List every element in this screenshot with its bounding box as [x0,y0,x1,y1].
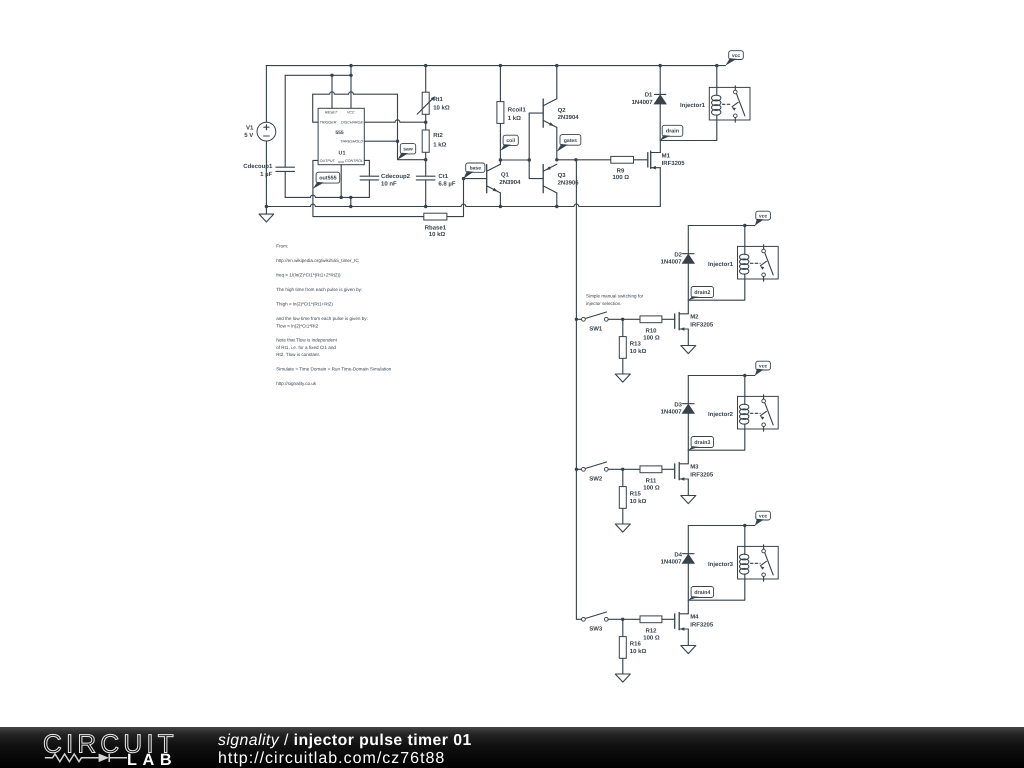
svg-text:10 kΩ: 10 kΩ [630,498,647,505]
ground [681,495,696,503]
capacitor Cdecoup2 on CONTROL pin [360,160,411,197]
wire ground rail [265,204,661,208]
resistor R12 100 [623,616,675,642]
svg-text:of Rt1, i.e. for a fixed Ct1 a: of Rt1, i.e. for a fixed Ct1 and [276,345,336,350]
wire switch column [575,160,578,620]
diode D3 1N4007 [661,376,695,451]
svg-text:100 Ω: 100 Ω [643,335,660,342]
svg-text:gates: gates [564,138,577,144]
svg-text:1 µF: 1 µF [260,171,272,178]
transistor Q1 2N3904 [464,160,522,207]
svg-text:1N4007: 1N4007 [661,259,683,266]
svg-text:http://signality.co.uk: http://signality.co.uk [276,381,317,386]
ground [681,345,696,353]
svg-text:OUTPUT: OUTPUT [320,159,336,163]
svg-text:coil: coil [506,138,515,144]
svg-text:M2: M2 [690,314,699,321]
svg-text:M3: M3 [690,464,699,471]
transistor M3 IRF3205 [675,450,714,495]
svg-text:5 V: 5 V [244,132,253,139]
svg-text:100 Ω: 100 Ω [643,485,660,492]
svg-text:drain2: drain2 [694,290,710,296]
resistor R16 10k [619,619,646,674]
wire GND pin [340,165,342,198]
svg-text:drain: drain [666,129,679,135]
svg-text:LAB: LAB [127,751,177,768]
transistor M2 IRF3205 [675,300,714,345]
wire coil node [499,123,531,161]
wire drain node [688,279,745,300]
svg-text:6.8 µF: 6.8 µF [438,180,455,187]
svg-text:1N4007: 1N4007 [661,409,683,416]
svg-text:10 kΩ: 10 kΩ [630,348,647,355]
svg-text:1N4007: 1N4007 [661,559,683,566]
svg-text:10 kΩ: 10 kΩ [630,648,647,655]
svg-text:From:: From: [276,244,288,249]
svg-text:V1: V1 [246,124,254,131]
wire inner ground rail [285,195,369,199]
IC U1 555 timer [318,108,364,164]
svg-text:TRIGGER: TRIGGER [320,121,337,125]
ground [615,374,630,382]
svg-text:SW3: SW3 [589,626,603,633]
resistor R13 10k [619,319,646,374]
resistor R10 100 [623,316,675,342]
annotation text [586,293,644,305]
svg-text:IRF3205: IRF3205 [690,622,714,629]
CircuitLab logo [0,727,200,768]
ground [615,674,630,682]
svg-text:555: 555 [335,130,344,136]
wire Rbase1 to base node [447,177,465,217]
svg-text:vcc: vcc [759,364,768,370]
wire [265,141,267,207]
capacitor Ct1 [416,160,455,207]
svg-text:D4: D4 [674,551,682,558]
wire drain node [688,429,745,450]
wire base rail Q2 Q3 [529,113,543,179]
svg-text:SW2: SW2 [589,476,603,483]
annotation notes text [276,244,392,386]
svg-text:VCC: VCC [347,110,355,114]
svg-text:IRF3205: IRF3205 [662,160,686,167]
svg-text:SW1: SW1 [589,326,603,333]
svg-text:Injector1: Injector1 [680,102,706,109]
diode D4 1N4007 [661,526,695,601]
transistor Q3 2N3906 [543,164,579,206]
ground [259,207,274,223]
svg-text:Tlow = ln(2)*Ct1*Rt2: Tlow = ln(2)*Ct1*Rt2 [276,323,318,328]
svg-text:1 kΩ: 1 kΩ [433,141,446,148]
svg-text:injector selection.: injector selection. [586,301,622,306]
svg-text:2N3904: 2N3904 [499,179,521,186]
svg-text:GND: GND [338,160,344,164]
svg-text:DISCHARGE: DISCHARGE [341,121,363,125]
svg-text:Injector1: Injector1 [708,261,734,268]
resistor Rbase1 [424,213,447,238]
svg-text:Q1: Q1 [501,171,510,178]
net flag base [464,163,485,179]
svg-text:Q2: Q2 [558,107,567,114]
svg-text:100 Ω: 100 Ω [613,174,630,181]
svg-text:vcc: vcc [732,53,741,59]
svg-text:M1: M1 [662,152,671,159]
svg-text:http://en.wikipedia.org/wiki/5: http://en.wikipedia.org/wiki/555_timer_I… [276,258,359,263]
wire TRIGGER to THRESHOLD net [313,92,428,162]
svg-text:saw: saw [403,147,413,153]
wire [350,197,352,206]
svg-text:R16: R16 [630,641,642,648]
relay Injector3 [708,526,778,582]
wire [265,66,267,123]
svg-text:Rt1: Rt1 [433,96,443,103]
net flag coil [500,135,518,151]
ground [615,524,630,532]
svg-text:Q3: Q3 [558,172,567,179]
svg-text:1N4007: 1N4007 [632,99,654,106]
svg-text:Rt2: Rt2 [433,132,443,139]
switch SW2 [576,462,624,483]
svg-text:IRF3205: IRF3205 [690,472,714,479]
relay Injector1 [708,226,778,282]
svg-text:Cdecoup1: Cdecoup1 [243,163,273,170]
wire DISCHARGE pin [364,120,427,124]
resistor R15 10k [619,469,646,524]
capacitor Cdecoup1 [243,75,294,197]
wire RESET pin [331,75,333,108]
svg-text:Note that Tlow is independent: Note that Tlow is independent [276,338,337,343]
svg-text:R12: R12 [645,628,657,635]
svg-text:10 nF: 10 nF [381,180,397,187]
svg-text:D1: D1 [645,92,653,99]
net flag vcc [755,211,770,225]
transistor M1 IRF3205 [648,141,685,207]
svg-text:and the low time from each pul: and the low time from each pulse is give… [276,316,368,321]
svg-text:R15: R15 [630,491,642,498]
wire vcc rail of Injector2 block [688,374,755,377]
diode D2 1N4007 [661,226,695,301]
switch SW3 [576,612,624,633]
svg-text:M4: M4 [690,614,699,621]
relay Injector1 [680,66,750,123]
svg-text:R11: R11 [646,478,657,485]
wire v+ sub rail [285,74,352,77]
svg-text:Rcoil1: Rcoil1 [508,107,527,114]
wire VCC pin [350,66,352,109]
voltage source V1 [244,122,276,141]
net flag drain4 [688,587,713,601]
net flag gates [557,135,581,152]
wire drain node [660,120,717,141]
resistor Rt1 potentiometer [417,66,450,123]
net flag drain [660,125,683,140]
svg-text:10 kΩ: 10 kΩ [433,104,450,111]
wire THRESHOLD pin [364,140,397,142]
wire vcc rail of Injector3 block [688,524,755,527]
svg-text:vcc: vcc [759,514,768,520]
svg-text:Injector2: Injector2 [708,411,734,418]
svg-text:THRESHOLD: THRESHOLD [340,140,363,144]
svg-text:Thigh = ln(2)*Ct1*(Rt1+Rt2): Thigh = ln(2)*Ct1*(Rt1+Rt2) [276,302,333,307]
svg-text:The high time from each pulse: The high time from each pulse is given b… [276,287,362,292]
net flag vcc [755,511,770,525]
wire gates rail [555,158,611,161]
svg-text:drain4: drain4 [694,590,710,596]
svg-text:R9: R9 [617,168,625,175]
svg-text:2N3904: 2N3904 [558,114,580,121]
svg-text:base: base [470,166,482,172]
svg-text:Cdecoup2: Cdecoup2 [381,173,411,180]
net flag drain2 [688,287,713,301]
resistor Rcoil1 [497,66,527,124]
wire OUTPUT to Rbase1 [313,160,424,216]
transistor Q2 2N3904 [543,66,579,160]
net flag saw [398,144,416,160]
net flag out555 [313,172,340,189]
svg-text:Injector3: Injector3 [708,561,734,568]
svg-text:D2: D2 [674,251,682,258]
svg-text:1 kΩ: 1 kΩ [508,115,521,122]
svg-text:Rbase1: Rbase1 [425,225,447,232]
relay Injector2 [708,376,778,432]
svg-text:100 Ω: 100 Ω [643,635,660,642]
wire vcc top rail [266,64,725,67]
svg-text:U1: U1 [339,150,346,156]
svg-text:R10: R10 [645,328,657,335]
svg-text:CONTROL: CONTROL [345,159,363,163]
svg-text:out555: out555 [319,176,336,182]
net flag vcc [755,361,770,375]
switch SW1 [576,312,624,333]
svg-text:RESET: RESET [325,110,338,114]
ground [681,645,696,653]
wire drain node [688,579,745,600]
svg-text:Ct1: Ct1 [438,173,448,180]
svg-text:IRF3205: IRF3205 [690,322,714,329]
wire vcc rail of Injector1 block [688,224,755,227]
net flag drain3 [688,437,713,451]
svg-text:10 kΩ: 10 kΩ [429,231,446,238]
net flag vcc [725,51,743,66]
svg-text:drain3: drain3 [694,440,710,446]
resistor Rt2 [422,122,446,160]
svg-text:vcc: vcc [759,214,768,220]
svg-text:Simple manual switching for: Simple manual switching for [586,293,644,298]
svg-text:freq = 1/(ln(2)*Ct1*(Rt1+2*Rt2: freq = 1/(ln(2)*Ct1*(Rt1+2*Rt2)) [276,273,341,278]
svg-text:R13: R13 [630,341,642,348]
resistor R9 [611,156,648,181]
svg-text:Rt2, Tlow is constant.: Rt2, Tlow is constant. [276,352,320,357]
svg-text:D3: D3 [674,401,682,408]
transistor M4 IRF3205 [675,600,714,645]
svg-text:Simulate > Time Domain > Run T: Simulate > Time Domain > Run Time-Domain… [276,367,392,372]
diode D1 1N4007 [632,66,667,141]
resistor R11 100 [623,466,675,492]
